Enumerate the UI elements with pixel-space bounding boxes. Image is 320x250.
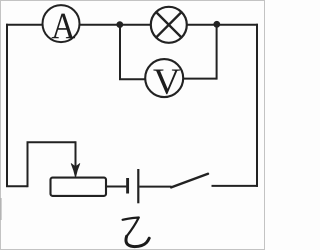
- wire: slider drop: [75, 141, 77, 168]
- wire: riser up to slider feed: [27, 142, 29, 187]
- switch S1 arm: [171, 174, 208, 188]
- wire: rheostat to battery: [105, 186, 126, 188]
- wire: switch to bottom-right corner: [212, 185, 259, 187]
- battery cell positive plate (long): [137, 169, 139, 203]
- wire: right vertical rail: [256, 24, 258, 187]
- battery cell negative plate (short): [126, 178, 129, 194]
- lamp L1: [151, 7, 187, 43]
- rheostat R1 slider arrowhead: [71, 164, 80, 178]
- wire: horizontal feed to slider: [27, 141, 76, 143]
- wire: voltmeter branch right: [180, 78, 217, 80]
- wire: drop from node J1 to voltmeter branch: [119, 24, 121, 79]
- ammeter A: [43, 5, 80, 42]
- label 乙 (figure caption): [123, 218, 150, 247]
- voltmeter V: [145, 59, 183, 97]
- wire: bottom-left horizontal to rheostat riser: [6, 185, 28, 187]
- node J1 junction dot: [116, 21, 123, 28]
- rheostat R1 body: [51, 178, 107, 196]
- wire: top horizontal rail: [6, 24, 258, 26]
- wire: left vertical rail: [6, 24, 8, 187]
- wire: voltmeter branch left: [119, 78, 150, 80]
- node J2 junction dot: [213, 21, 220, 28]
- wire: voltmeter branch riser to node J2: [216, 24, 218, 79]
- wire: battery to switch: [139, 186, 171, 188]
